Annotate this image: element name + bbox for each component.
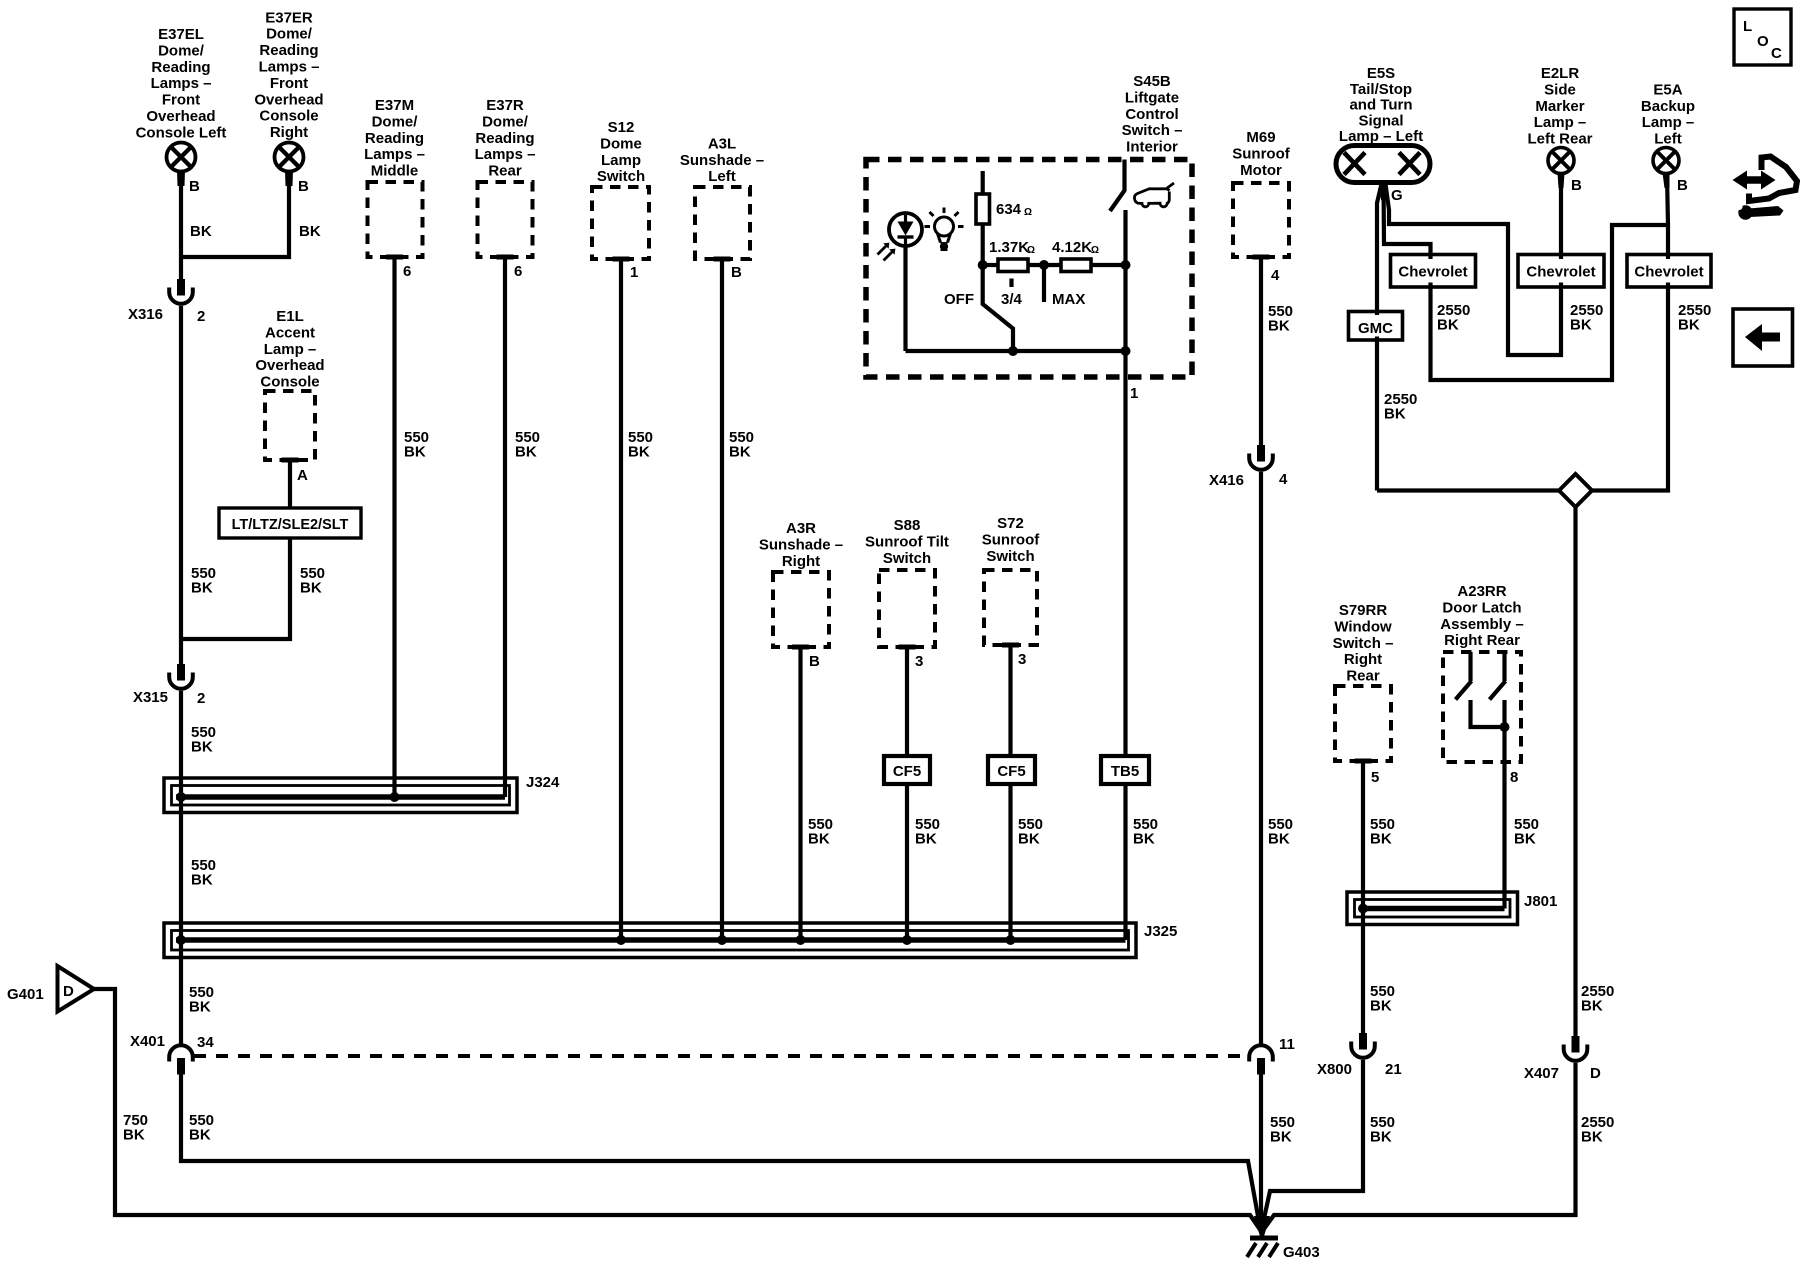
sunshade A3R label xyxy=(759,520,843,570)
connector X416 xyxy=(1249,445,1273,470)
sunshade A3R dashed box xyxy=(773,572,829,647)
dashed harness line X401 to 11 xyxy=(194,1054,1248,1058)
switch S45B label xyxy=(1122,73,1183,156)
svg-text:BK: BK xyxy=(1018,831,1040,848)
svg-text:L: L xyxy=(1743,18,1752,35)
connector X407 xyxy=(1564,1036,1588,1061)
svg-text:BK: BK xyxy=(1581,998,1603,1015)
wire common bottom xyxy=(906,349,1126,353)
liftgate car icon xyxy=(1134,183,1174,207)
svg-text:BK: BK xyxy=(515,444,537,461)
svg-text:A: A xyxy=(297,467,308,484)
switch S88 label xyxy=(865,517,949,567)
splice pack J325 xyxy=(164,923,1136,958)
option box Chevrolet 3 xyxy=(1627,255,1711,288)
wire G to E5A branch xyxy=(1384,184,1669,380)
wire X416 to connector 11 xyxy=(1259,472,1263,1046)
switch wiper OFF position xyxy=(983,265,1013,351)
wire X401 to ground xyxy=(181,1075,1261,1231)
svg-text:Sunshade –: Sunshade – xyxy=(680,152,764,169)
svg-text:Chevrolet: Chevrolet xyxy=(1398,264,1467,281)
svg-text:2: 2 xyxy=(197,690,205,707)
svg-text:Console Left: Console Left xyxy=(136,124,227,141)
svg-text:Ω: Ω xyxy=(1091,245,1099,256)
svg-text:BK: BK xyxy=(123,1127,145,1144)
wire E37M to J324 xyxy=(392,258,396,797)
svg-text:1.37K: 1.37K xyxy=(989,239,1029,256)
lamp E5S symbol xyxy=(1336,146,1430,201)
svg-text:BK: BK xyxy=(1678,317,1700,334)
option box Chevrolet 2 xyxy=(1518,255,1604,288)
lamp E37M dashed box xyxy=(368,182,423,257)
sunshade A3L dashed box xyxy=(695,187,750,259)
svg-text:X315: X315 xyxy=(133,689,168,706)
svg-text:Switch: Switch xyxy=(597,168,645,185)
svg-text:Switch: Switch xyxy=(883,550,931,567)
svg-text:Ω: Ω xyxy=(1027,245,1035,256)
wire E1L to LT box xyxy=(288,460,292,508)
lamp E5S label xyxy=(1339,65,1423,145)
svg-text:BK: BK xyxy=(808,831,830,848)
connector X315 xyxy=(169,664,193,689)
option box Chevrolet 1 xyxy=(1391,255,1476,288)
resistor 1.37K xyxy=(983,263,998,267)
svg-text:G403: G403 xyxy=(1283,1244,1320,1261)
wire E37ER to junction xyxy=(181,186,289,257)
svg-text:Lamp: Lamp xyxy=(601,152,641,169)
sunshade A3L label xyxy=(680,135,764,185)
svg-text:Right: Right xyxy=(270,124,308,141)
svg-text:Front: Front xyxy=(270,75,308,92)
latch switch 2 xyxy=(1502,652,1506,681)
wire diamond to X407 xyxy=(1573,507,1577,1036)
svg-text:Chevrolet: Chevrolet xyxy=(1526,264,1595,281)
svg-text:Dome/: Dome/ xyxy=(372,113,419,130)
lamp E37ER symbol xyxy=(275,143,304,187)
option box CF5 xyxy=(884,756,930,784)
wire S72 to CF5 xyxy=(1008,646,1012,756)
svg-text:S88: S88 xyxy=(894,517,921,534)
wire S45B to TB5 xyxy=(1123,377,1127,756)
svg-text:Dome/: Dome/ xyxy=(158,42,205,59)
svg-text:2: 2 xyxy=(197,308,205,325)
svg-text:B: B xyxy=(1677,177,1688,194)
wire connector 11 to ground xyxy=(1259,1075,1263,1233)
svg-text:BK: BK xyxy=(1570,317,1592,334)
svg-text:BK: BK xyxy=(1268,831,1290,848)
tap 3/4 xyxy=(1009,279,1013,288)
lamp E5A symbol xyxy=(1653,148,1679,189)
svg-text:B: B xyxy=(731,264,742,281)
svg-text:Sunshade –: Sunshade – xyxy=(759,536,843,553)
svg-text:X407: X407 xyxy=(1524,1065,1559,1082)
splice pack J801 xyxy=(1347,892,1518,925)
option box LT/LTZ/SLE2/SLT xyxy=(219,508,361,538)
wire S79RR to J801 xyxy=(1361,762,1365,909)
svg-text:BK: BK xyxy=(1437,317,1459,334)
svg-text:6: 6 xyxy=(403,263,411,280)
svg-text:E37EL: E37EL xyxy=(158,26,204,43)
svg-text:Lamps –: Lamps – xyxy=(259,59,320,76)
svg-text:D: D xyxy=(63,983,74,1000)
svg-text:634: 634 xyxy=(996,201,1022,218)
svg-text:BK: BK xyxy=(1370,1129,1392,1146)
icon double arrow with panel and wrench xyxy=(1733,157,1798,220)
wire E37EL down to X316 xyxy=(179,186,183,279)
svg-text:8: 8 xyxy=(1510,769,1518,786)
wire LT box to wire A junction xyxy=(181,538,290,639)
svg-text:and Turn: and Turn xyxy=(1349,97,1412,114)
option box TB5 xyxy=(1101,756,1149,784)
svg-text:B: B xyxy=(189,178,200,195)
svg-text:Front: Front xyxy=(162,92,200,109)
switch S79RR label xyxy=(1333,602,1394,685)
latch A23RR dashed box xyxy=(1443,652,1521,762)
svg-text:Sunroof: Sunroof xyxy=(1232,145,1290,162)
svg-text:E1L: E1L xyxy=(276,308,304,325)
switch S12 dashed box xyxy=(592,187,649,259)
svg-text:E37ER: E37ER xyxy=(265,9,313,26)
svg-text:Right: Right xyxy=(782,553,820,570)
wire E5A to diamond xyxy=(1592,176,1668,491)
svg-text:Switch –: Switch – xyxy=(1122,122,1183,139)
svg-text:BK: BK xyxy=(628,444,650,461)
svg-text:Ω: Ω xyxy=(1024,207,1032,218)
svg-text:BK: BK xyxy=(189,1127,211,1144)
svg-text:S79RR: S79RR xyxy=(1339,602,1388,619)
motor M69 label xyxy=(1232,129,1290,179)
svg-text:Switch –: Switch – xyxy=(1333,635,1394,652)
svg-text:J801: J801 xyxy=(1524,893,1557,910)
svg-text:X800: X800 xyxy=(1317,1061,1352,1078)
wire CF5 to J325 xyxy=(1008,784,1012,940)
svg-text:3: 3 xyxy=(915,653,923,670)
svg-text:CF5: CF5 xyxy=(893,763,921,780)
lamp E37M label xyxy=(364,97,425,180)
svg-text:J325: J325 xyxy=(1144,923,1177,940)
switch S88 dashed box xyxy=(879,570,935,647)
svg-text:Rear: Rear xyxy=(1346,668,1380,685)
svg-text:BK: BK xyxy=(1268,318,1290,335)
svg-text:S72: S72 xyxy=(997,515,1024,532)
node 3/4 junction xyxy=(1028,263,1061,267)
svg-text:Backup: Backup xyxy=(1641,98,1695,115)
svg-text:X416: X416 xyxy=(1209,472,1244,489)
svg-text:E37M: E37M xyxy=(375,97,414,114)
svg-text:X401: X401 xyxy=(130,1033,165,1050)
svg-text:Assembly –: Assembly – xyxy=(1440,616,1523,633)
svg-text:Window: Window xyxy=(1334,618,1392,635)
bulb icon xyxy=(925,208,964,250)
svg-text:BK: BK xyxy=(1581,1129,1603,1146)
wire CF5 to J325 xyxy=(905,784,909,940)
svg-text:TB5: TB5 xyxy=(1111,763,1139,780)
svg-text:6: 6 xyxy=(514,263,522,280)
connector X316 xyxy=(169,279,193,304)
switch S72 dashed box xyxy=(984,570,1037,645)
latch switch 1 xyxy=(1468,652,1472,681)
svg-text:BK: BK xyxy=(1384,406,1406,423)
LED indicator xyxy=(878,213,923,261)
svg-text:21: 21 xyxy=(1385,1061,1402,1078)
svg-text:C: C xyxy=(1771,45,1782,62)
svg-text:Lamp –: Lamp – xyxy=(1642,114,1695,131)
lamp E2LR symbol xyxy=(1548,148,1574,189)
svg-text:Overhead: Overhead xyxy=(254,91,323,108)
svg-text:Accent: Accent xyxy=(265,324,315,341)
svg-text:BK: BK xyxy=(915,831,937,848)
svg-text:Dome/: Dome/ xyxy=(482,113,529,130)
svg-text:4: 4 xyxy=(1271,267,1280,284)
svg-text:BK: BK xyxy=(1514,831,1536,848)
svg-text:X316: X316 xyxy=(128,306,163,323)
svg-text:Console: Console xyxy=(260,374,319,391)
tap MAX xyxy=(1042,265,1046,302)
svg-text:3: 3 xyxy=(1018,651,1026,668)
svg-text:Reading: Reading xyxy=(365,130,424,147)
wire M69 to X416 xyxy=(1259,258,1263,445)
svg-text:Liftgate: Liftgate xyxy=(1125,89,1179,106)
connector X800 xyxy=(1351,1033,1375,1058)
svg-text:Lamps –: Lamps – xyxy=(364,146,425,163)
ground G401 xyxy=(58,966,95,1012)
svg-text:Rear: Rear xyxy=(488,163,522,180)
svg-text:BK: BK xyxy=(191,739,213,756)
svg-text:Lamps –: Lamps – xyxy=(475,146,536,163)
svg-text:BK: BK xyxy=(404,444,426,461)
svg-text:Door Latch: Door Latch xyxy=(1442,599,1521,616)
switch S79RR dashed box xyxy=(1335,686,1391,761)
svg-text:G401: G401 xyxy=(7,986,44,1003)
connector X401 xyxy=(169,1045,193,1074)
svg-text:Right Rear: Right Rear xyxy=(1444,632,1520,649)
option box GMC xyxy=(1349,312,1403,341)
svg-text:E5S: E5S xyxy=(1367,65,1395,82)
svg-text:Switch: Switch xyxy=(986,548,1034,565)
svg-text:E37R: E37R xyxy=(486,97,524,114)
lamp E37EL label xyxy=(136,26,227,141)
svg-text:MAX: MAX xyxy=(1052,291,1085,308)
switch S12 label xyxy=(597,119,645,185)
svg-text:S12: S12 xyxy=(608,119,635,136)
svg-text:Left: Left xyxy=(1654,131,1682,148)
wire S88 to CF5 xyxy=(905,648,909,756)
svg-text:4.12K: 4.12K xyxy=(1052,239,1092,256)
svg-text:BK: BK xyxy=(190,223,212,240)
svg-text:Reading: Reading xyxy=(259,42,318,59)
wire A3L to J325 xyxy=(720,260,724,940)
svg-text:Left Rear: Left Rear xyxy=(1527,131,1592,148)
wire X800 to ground xyxy=(1262,1060,1364,1230)
svg-text:OFF: OFF xyxy=(944,291,974,308)
svg-text:A23RR: A23RR xyxy=(1457,583,1506,600)
icon LOC box xyxy=(1734,9,1791,65)
svg-text:O: O xyxy=(1757,33,1769,50)
wire X316 to X315 xyxy=(179,306,183,664)
svg-text:A3R: A3R xyxy=(786,520,816,537)
svg-text:Interior: Interior xyxy=(1126,139,1178,156)
svg-text:BK: BK xyxy=(1370,831,1392,848)
svg-text:Right: Right xyxy=(1344,651,1382,668)
wire G401 to bottom xyxy=(94,989,1261,1231)
svg-text:S45B: S45B xyxy=(1133,73,1171,90)
node OFF junction xyxy=(978,260,988,270)
lamp E1L label xyxy=(255,308,324,391)
svg-text:A3L: A3L xyxy=(708,135,736,152)
svg-text:Console: Console xyxy=(259,108,318,125)
svg-text:34: 34 xyxy=(197,1034,214,1051)
svg-text:D: D xyxy=(1590,1065,1601,1082)
svg-text:BK: BK xyxy=(299,223,321,240)
wire A3R to J325 xyxy=(798,648,802,940)
wire J801 to X800 xyxy=(1361,909,1365,1034)
wire E37R to J324 xyxy=(503,258,507,797)
lamp E1L dashed box xyxy=(265,391,315,460)
wire switch to common xyxy=(1123,210,1127,377)
svg-text:Lamp – Left: Lamp – Left xyxy=(1339,128,1423,145)
svg-text:CF5: CF5 xyxy=(997,763,1025,780)
svg-text:B: B xyxy=(298,178,309,195)
svg-text:BK: BK xyxy=(300,580,322,597)
wire G to E2LR branch xyxy=(1386,176,1562,355)
svg-text:E5A: E5A xyxy=(1653,81,1682,98)
svg-text:BK: BK xyxy=(1133,831,1155,848)
svg-text:M69: M69 xyxy=(1246,129,1275,146)
svg-text:G: G xyxy=(1391,187,1403,204)
svg-text:Overhead: Overhead xyxy=(255,357,324,374)
wire X315 to J324 xyxy=(179,691,183,797)
svg-text:3/4: 3/4 xyxy=(1001,291,1023,308)
svg-text:Left: Left xyxy=(708,168,736,185)
liftgate switch blade xyxy=(1122,160,1126,192)
icon back arrow box xyxy=(1733,309,1793,366)
svg-text:B: B xyxy=(809,653,820,670)
svg-text:LT/LTZ/SLE2/SLT: LT/LTZ/SLE2/SLT xyxy=(232,517,349,533)
svg-text:Reading: Reading xyxy=(151,59,210,76)
svg-text:BK: BK xyxy=(1370,998,1392,1015)
svg-text:Control: Control xyxy=(1125,106,1178,123)
svg-text:Signal: Signal xyxy=(1358,112,1403,129)
wire LED to common xyxy=(903,246,907,351)
svg-text:Reading: Reading xyxy=(475,130,534,147)
svg-text:E2LR: E2LR xyxy=(1541,65,1580,82)
svg-text:B: B xyxy=(1571,177,1582,194)
svg-text:GMC: GMC xyxy=(1358,320,1393,337)
svg-text:Lamp –: Lamp – xyxy=(1534,114,1587,131)
lamp E37R label xyxy=(475,97,536,180)
svg-text:Middle: Middle xyxy=(371,163,419,180)
svg-text:1: 1 xyxy=(1130,385,1138,402)
svg-text:Dome/: Dome/ xyxy=(266,26,313,43)
lamp E37EL symbol xyxy=(167,143,196,187)
svg-text:Marker: Marker xyxy=(1535,98,1584,115)
svg-text:Chevrolet: Chevrolet xyxy=(1634,264,1703,281)
svg-text:Lamps –: Lamps – xyxy=(151,75,212,92)
svg-text:Sunroof: Sunroof xyxy=(982,531,1040,548)
resistor 4.12K xyxy=(1061,259,1091,272)
wire G to GMC branch xyxy=(1377,184,1382,491)
svg-text:Sunroof Tilt: Sunroof Tilt xyxy=(865,533,949,550)
lamp E2LR label xyxy=(1527,65,1592,148)
motor M69 dashed box xyxy=(1233,183,1289,257)
lamp E5A label xyxy=(1641,81,1695,147)
latch A23RR label xyxy=(1440,583,1523,649)
svg-text:Tail/Stop: Tail/Stop xyxy=(1350,81,1412,98)
svg-text:BK: BK xyxy=(191,580,213,597)
splice diamond xyxy=(1559,474,1592,507)
splice pack J324 xyxy=(164,778,517,813)
svg-text:11: 11 xyxy=(1279,1036,1295,1053)
svg-text:1: 1 xyxy=(630,264,638,281)
lamp E37ER label xyxy=(254,9,323,141)
svg-text:Overhead: Overhead xyxy=(146,108,215,125)
svg-text:BK: BK xyxy=(1270,1129,1292,1146)
svg-text:Motor: Motor xyxy=(1240,162,1282,179)
lamp E37R dashed box xyxy=(478,182,533,257)
wire J325 to X401 xyxy=(179,940,183,1046)
wire J324 to J325 xyxy=(179,797,183,940)
svg-text:4: 4 xyxy=(1279,471,1288,488)
switch S45B dashed box xyxy=(866,160,1192,378)
connector 11 xyxy=(1249,1045,1273,1074)
wire S12 to J325 xyxy=(619,260,623,940)
svg-text:Side: Side xyxy=(1544,81,1576,98)
svg-text:BK: BK xyxy=(191,872,213,889)
svg-text:Lamp –: Lamp – xyxy=(264,341,317,358)
svg-text:BK: BK xyxy=(729,444,751,461)
svg-text:J324: J324 xyxy=(526,774,560,791)
svg-text:5: 5 xyxy=(1371,769,1379,786)
switch S72 label xyxy=(982,515,1040,565)
resistor 634 ohm xyxy=(981,171,985,194)
wire TB5 to J325 xyxy=(1123,784,1127,940)
wire A23RR to J801 xyxy=(1502,762,1506,909)
wire GMC branch to diamond xyxy=(1377,488,1559,492)
option box CF5 xyxy=(988,756,1035,784)
wire X407 to ground line xyxy=(1263,1063,1576,1231)
ground G403 xyxy=(1247,1216,1278,1257)
svg-text:Dome: Dome xyxy=(600,135,642,152)
svg-text:BK: BK xyxy=(189,999,211,1016)
